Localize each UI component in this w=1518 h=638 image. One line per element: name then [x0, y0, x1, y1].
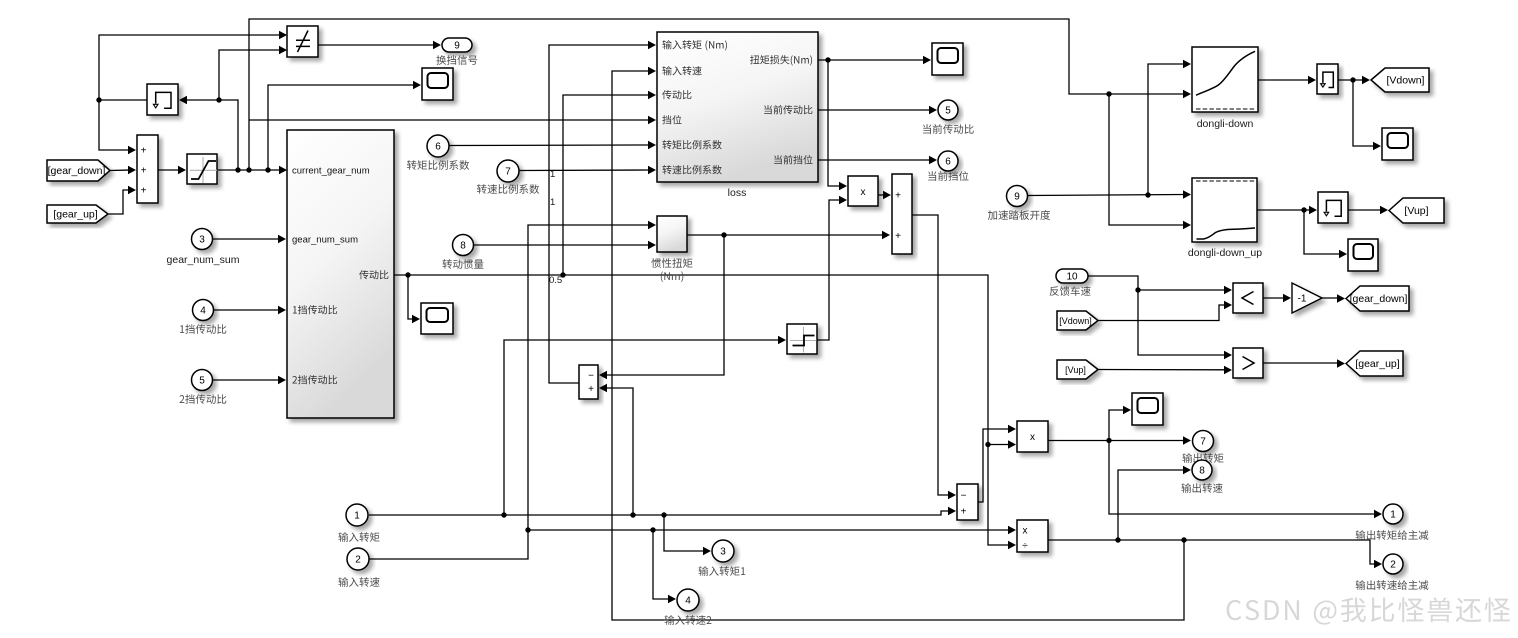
svg-text:x: x [1030, 432, 1035, 443]
wire product1 output to sum2 [878, 191, 891, 200]
from tag Vdown from [1057, 311, 1098, 330]
svg-text:2: 2 [1390, 560, 1396, 571]
wire branch to product4 input 2 [988, 440, 1016, 449]
svg-text:5: 5 [945, 106, 951, 117]
svg-text:gear_num_sum: gear_num_sum [167, 254, 240, 266]
sum block 4 (flipped, -+) [579, 365, 598, 399]
relational operator less-than [1233, 283, 1263, 313]
svg-text:[Vup]: [Vup] [1404, 205, 1428, 217]
wire inport 1 across to sum3 plus [369, 507, 956, 518]
scope scope6 [1348, 239, 1378, 271]
wire branch down to outport 1 main reducer [1109, 441, 1382, 519]
wire speed line to product5 [528, 526, 1016, 535]
svg-text:10: 10 [1066, 272, 1078, 283]
svg-text:7: 7 [1200, 437, 1206, 448]
wire loss current-ratio output to outport 5 [818, 106, 937, 115]
svg-text:3: 3 [720, 547, 726, 558]
memory block memory3 [1317, 64, 1338, 94]
port inport 6 torque ratio coef [427, 135, 449, 157]
label shuru zhuanju 1 [699, 566, 746, 576]
wire product5 output across [1048, 537, 1382, 568]
svg-text:9: 9 [1014, 192, 1020, 203]
goto tag Vup [1389, 198, 1444, 223]
wire branch down to outport 4 [653, 530, 676, 603]
svg-text:[gear_down]: [gear_down] [48, 165, 106, 177]
port outport 1 to main reducer torque [1383, 504, 1403, 524]
goto tag Vdown [1371, 68, 1429, 92]
svg-text:+: + [141, 186, 147, 197]
wire branch to flipped-sum plus input [599, 384, 633, 515]
saturation block [187, 154, 217, 184]
label jiasu taban kaidu [988, 210, 1050, 220]
svg-text:0.5: 0.5 [549, 275, 562, 286]
label 1 dang chuandongbi [180, 324, 226, 334]
subsystem loss [657, 32, 818, 182]
wire memory3 output to Vdown goto [1338, 76, 1370, 85]
wire branch down to scope5 [1353, 80, 1381, 150]
wire loss current-gear output to outport 6 [818, 156, 937, 165]
wire inport 9 to dongli-down_up input 1 [1028, 190, 1192, 199]
svg-text:+: + [895, 191, 901, 202]
svg-text:gear_num_sum: gear_num_sum [292, 235, 358, 246]
relational operator greater-than [1233, 348, 1263, 378]
wire branch up to relay [504, 336, 786, 515]
wire branch up to loss chuandongbi input [563, 91, 656, 275]
sum block 1 (+++ ) [137, 135, 158, 203]
label shuchu zhuansu gei zhujian [1356, 580, 1429, 590]
wire sum to saturation [158, 166, 186, 175]
svg-text:+: + [141, 146, 147, 157]
wire gear signal up and across top to dongli lookup [249, 19, 1191, 170]
from tag Vup from [1057, 360, 1098, 379]
svg-text:1: 1 [354, 511, 360, 522]
lookup table dongli-down [1192, 47, 1258, 112]
wire loss torque-loss output to scope2 [818, 56, 931, 65]
port outport 7 output torque [1193, 431, 1214, 452]
svg-text:1: 1 [550, 169, 555, 180]
wire feedback loop to loss input-speed input [612, 67, 1184, 620]
wire branch up to dongli-down input 1 [1148, 60, 1191, 195]
wire subsystem chuandongbi output across [394, 272, 1016, 549]
wire branch up to outport 8 [1118, 466, 1191, 540]
wire saturation output to subsystem current_gear_num [218, 166, 287, 175]
label shuchu zhuanju [1182, 453, 1223, 463]
wire gain output to gear_down goto [1322, 294, 1345, 303]
label 2 dang chuandongbi [180, 394, 227, 404]
wire relay output to product1 input 2 [817, 196, 847, 340]
svg-text:-1: -1 [1298, 294, 1307, 305]
goto tag gear_down goto [1346, 286, 1409, 311]
port inport 9 accelerator pedal [1007, 186, 1028, 207]
wire dongli-down output to memory3 [1258, 76, 1316, 85]
wire inport 4 to subsystem [214, 306, 286, 315]
svg-text:[Vdown]: [Vdown] [1387, 75, 1425, 87]
wire branch down to outport 3 [664, 515, 711, 555]
label shuru zhuansu 2 [665, 615, 712, 625]
svg-text:dongli-down: dongli-down [1197, 118, 1254, 130]
wire branch to memory input [179, 96, 238, 170]
from tag gear_down [47, 160, 110, 181]
svg-text:dongli-down_up: dongli-down_up [1188, 247, 1262, 259]
wire inport 8 to inertia input 2 [474, 241, 657, 250]
label zhuansu bili xishu [477, 184, 539, 194]
port inport 3 gear_num_sum [192, 229, 213, 250]
port inport 2 input speed [347, 548, 369, 570]
wire gear_up from-tag to sum input 3 [108, 186, 136, 214]
wire inport 7 to loss [519, 166, 656, 175]
watermark CSDN [1227, 597, 1511, 624]
wire branch down to dongli-down_up input 2 [1109, 94, 1191, 229]
wire flipped-sum output up to loss input 1 [549, 41, 656, 383]
wire inport 3 to subsystem gear_num_sum [213, 235, 286, 244]
label dangqian chuandongbi [923, 124, 974, 134]
wire gear_down from-tag to sum input 2 [110, 166, 136, 175]
scope scope4 [1132, 393, 1163, 425]
svg-text:+: + [961, 507, 967, 518]
svg-text:+: + [895, 231, 901, 242]
wire gear signal branch to loss dangwei input [249, 116, 656, 125]
port outport 5 current ratio [938, 100, 958, 120]
wire not-equal output to outport 9 [318, 41, 441, 50]
wire branch up to scope4 [1109, 406, 1131, 441]
wire branch down to scope3 [408, 275, 420, 323]
wire branch down to scope6 [1304, 210, 1347, 258]
label shuru zhuansu [338, 577, 379, 587]
svg-text:[Vdown]: [Vdown] [1059, 316, 1092, 326]
svg-text:6: 6 [435, 142, 441, 153]
wire branch to not-equal input 2 [219, 46, 287, 100]
scope scope3 [421, 303, 453, 334]
label guanxing niuju line1 [651, 258, 692, 268]
label dangqian dangwei [928, 171, 968, 181]
wire sum3 output up to product4 input 1 [978, 425, 1016, 502]
port outport 2 to main reducer speed [1383, 554, 1403, 574]
label huandang xinhao [436, 55, 477, 65]
svg-text:5: 5 [199, 376, 205, 387]
port inport 8 rotational inertia [453, 235, 474, 256]
svg-text:8: 8 [1199, 466, 1205, 477]
product block 1 [848, 176, 878, 206]
label shuchu zhuanju gei zhujian [1356, 530, 1429, 540]
product block 5 (x÷) [1017, 520, 1048, 552]
gain -1 [1292, 283, 1322, 313]
wire dongli-down_up output to memory4 [1257, 206, 1317, 215]
svg-text:[gear_up]: [gear_up] [53, 209, 97, 221]
lookup table dongli-down_up [1192, 178, 1257, 242]
from tag gear_up [47, 205, 108, 223]
svg-text:3: 3 [199, 235, 205, 246]
port outport 8 output speed [1192, 460, 1212, 480]
wire memory4 output to Vup goto [1348, 206, 1388, 215]
wire less-than output to gain [1263, 294, 1291, 303]
label zhuandong guanliang [442, 259, 483, 269]
memory block memory4 [1318, 192, 1348, 223]
subsystem gear selector [287, 130, 394, 418]
svg-text:+: + [141, 166, 147, 177]
port inport 1 input torque [346, 504, 368, 526]
port inport 4 first gear ratio [193, 300, 214, 321]
port outport 9 huandang signal [442, 38, 472, 52]
svg-text:loss: loss [728, 187, 747, 199]
svg-text:÷: ÷ [1022, 541, 1028, 552]
svg-text:1: 1 [1390, 510, 1396, 521]
svg-text:4: 4 [200, 306, 206, 317]
svg-text:[gear_down]: [gear_down] [1350, 293, 1408, 305]
wire inport 5 to subsystem [213, 376, 286, 385]
svg-text:−: − [588, 371, 594, 382]
port outport 3 input torque 1 [712, 540, 734, 562]
svg-text:8: 8 [460, 241, 466, 252]
wire inport 2 up to inertia input 1 [369, 221, 656, 559]
port inport 5 second gear ratio [192, 370, 213, 391]
wire inertia output to sum2 input 2 [687, 231, 890, 240]
wire sum2 output down to sum3 minus [912, 215, 956, 499]
wire Vup from-tag to greater-than input 2 [1098, 366, 1232, 375]
svg-text:6: 6 [945, 157, 951, 168]
label shuchu zhuansu [1181, 483, 1222, 493]
port inport 10 feedback speed [1056, 269, 1088, 283]
wire branch down to product1 input 1 [828, 60, 847, 190]
sum block 3 (-+) [957, 484, 978, 520]
wire inport 6 to loss [449, 141, 656, 150]
wire branch up to scope1 [268, 81, 421, 170]
wire product4 output to outport 7 [1048, 436, 1191, 445]
port outport 4 input speed 2 [677, 589, 699, 611]
wire memory output branch to sum input 1 [99, 100, 136, 154]
port inport 7 speed ratio coef [497, 160, 519, 182]
scope scope2 [932, 43, 963, 75]
svg-text:2: 2 [355, 555, 361, 566]
label shuru zhuanju [338, 532, 379, 542]
wire memory output to not-equal input 1 [96, 31, 287, 103]
wire greater-than output to gear_up goto [1263, 359, 1345, 368]
svg-text:9: 9 [454, 41, 460, 52]
wire branch down to greater-than input 1 [1138, 290, 1232, 359]
label guanxing niuju line2 [661, 271, 684, 282]
memory block memory1 (flipped) [147, 84, 178, 115]
svg-text:7: 7 [505, 167, 511, 178]
svg-text:[gear_up]: [gear_up] [1355, 358, 1399, 370]
subsystem inertia torque [657, 216, 687, 252]
wire inport 10 to less-than input 1 [1088, 276, 1232, 294]
svg-text:1: 1 [550, 197, 555, 208]
scope scope5 [1382, 128, 1413, 160]
svg-text:−: − [961, 491, 967, 502]
svg-text:[Vup]: [Vup] [1065, 365, 1086, 375]
label zhuanju bili xishu [407, 160, 469, 170]
goto tag gear_up goto [1346, 351, 1403, 376]
scope scope1 [422, 68, 453, 100]
port outport 6 current gear [938, 151, 958, 171]
svg-text:x: x [861, 187, 866, 198]
sum block 2 (++) [892, 174, 912, 254]
label fankui chesu [1050, 286, 1091, 296]
product block 4 [1017, 421, 1048, 452]
wire Vdown from-tag to less-than input 2 [1098, 301, 1232, 321]
relational operator not-equal [287, 26, 318, 57]
wire branch down to flipped-sum minus [599, 235, 724, 379]
svg-text:x: x [1023, 526, 1028, 537]
svg-text:4: 4 [685, 596, 691, 607]
svg-text:+: + [588, 384, 594, 395]
relay block [787, 324, 817, 354]
svg-text:current_gear_num: current_gear_num [292, 166, 370, 177]
